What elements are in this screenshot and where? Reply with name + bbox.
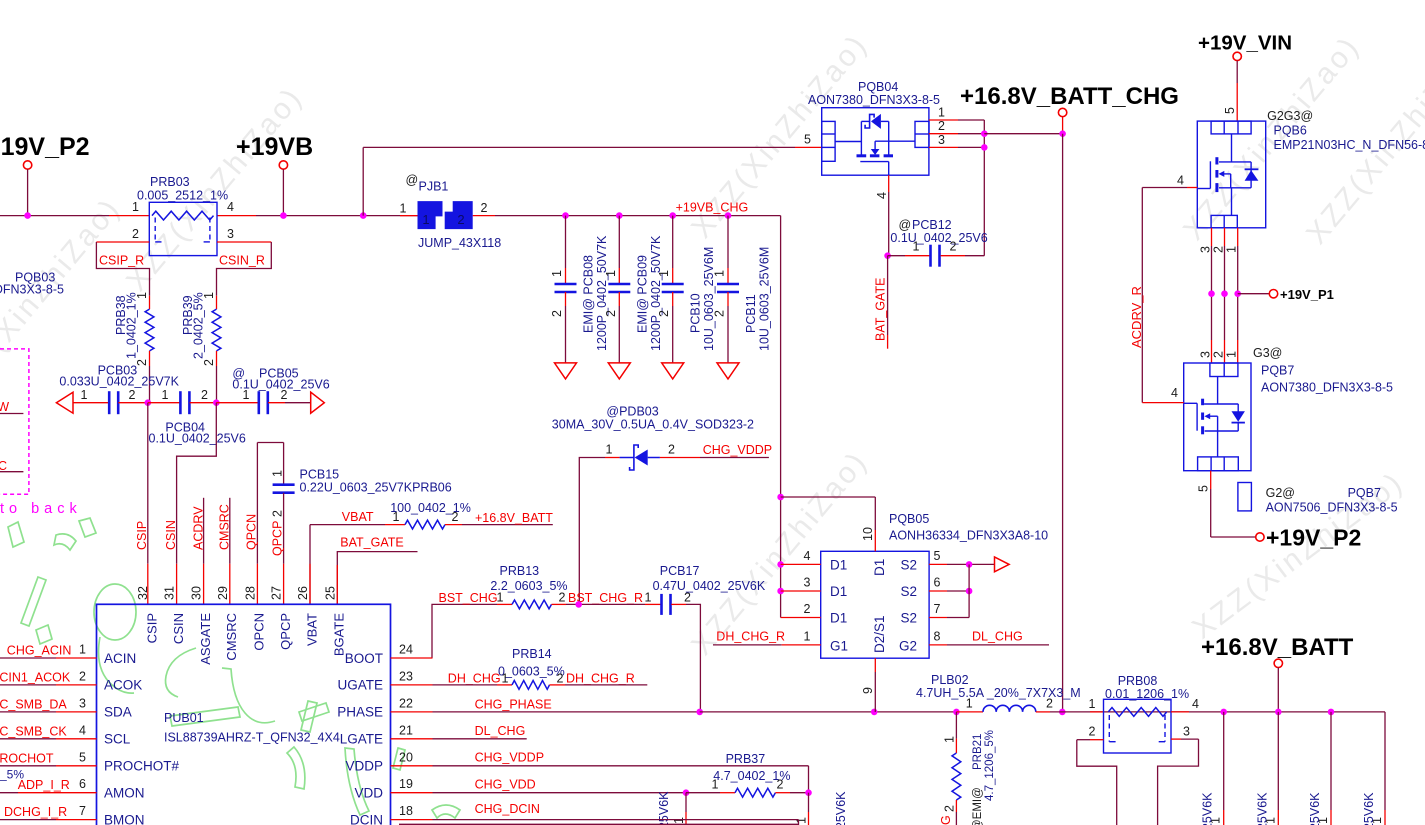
svg-text:G1: G1 <box>830 638 848 653</box>
svg-text:_25V6K: _25V6K <box>1201 792 1215 825</box>
svg-text:100_0402_1%: 100_0402_1% <box>390 501 471 515</box>
node pin 23 UGATE <box>391 684 433 686</box>
svg-text:_25V6K: _25V6K <box>1255 792 1269 825</box>
svg-text:SDA: SDA <box>104 705 132 720</box>
svg-text:8: 8 <box>934 630 941 644</box>
svg-text:2: 2 <box>481 201 488 215</box>
svg-text:SCL: SCL <box>104 732 131 747</box>
node pin 7 BMON <box>0 819 56 821</box>
pin 9 to phase node <box>874 658 876 672</box>
wire main +19VB horizontal <box>0 215 109 217</box>
svg-text:AON7380_DFN3X3-8-5: AON7380_DFN3X3-8-5 <box>0 283 64 297</box>
svg-text:EC_SMB_CK: EC_SMB_CK <box>0 724 67 738</box>
svg-text:CSIN: CSIN <box>164 520 178 550</box>
svg-text:4: 4 <box>1177 174 1184 188</box>
svg-text:7: 7 <box>79 804 86 818</box>
svg-text:7: 7 <box>934 602 941 616</box>
node pin 19 VDD <box>391 792 433 794</box>
svg-text:DL_CHG: DL_CHG <box>475 724 526 738</box>
svg-text:2.2_0603_5%: 2.2_0603_5% <box>490 579 567 593</box>
svg-text:BGATE: BGATE <box>332 613 347 656</box>
svg-text:1: 1 <box>606 443 613 457</box>
svg-text:20: 20 <box>399 750 413 764</box>
svg-text:CMSRC: CMSRC <box>224 613 239 661</box>
svg-text:AON7380_DFN3X3-8-5: AON7380_DFN3X3-8-5 <box>808 93 940 107</box>
svg-text:19: 19 <box>399 777 413 791</box>
svg-text:AONH36334_DFN3X3A8-10: AONH36334_DFN3X3A8-10 <box>889 529 1048 543</box>
svg-text:DH_CHG_R: DH_CHG_R <box>566 672 635 686</box>
svg-text:CHG_VDDP: CHG_VDDP <box>475 751 544 765</box>
svg-text:26: 26 <box>296 586 310 600</box>
svg-text:1: 1 <box>966 697 973 711</box>
svg-text:DH_CHG_R: DH_CHG_R <box>716 630 785 644</box>
bottom decoupling caps stubs <box>1220 709 1227 716</box>
svg-text:VBAT: VBAT <box>342 510 374 524</box>
svg-text:1: 1 <box>938 106 945 120</box>
svg-text:D2/S1: D2/S1 <box>872 615 887 653</box>
svg-text:PCB10: PCB10 <box>689 293 703 333</box>
svg-text:29: 29 <box>216 586 230 600</box>
svg-text:@PDB03: @PDB03 <box>606 405 658 419</box>
svg-text:30: 30 <box>190 586 204 600</box>
svg-text:PCB15: PCB15 <box>300 468 340 482</box>
node pin 3 SDA <box>0 711 56 713</box>
svg-text:G3@: G3@ <box>1253 346 1282 360</box>
svg-text:1: 1 <box>713 270 727 277</box>
svg-text:PUB01: PUB01 <box>164 711 204 725</box>
svg-text:PQB05: PQB05 <box>889 512 929 526</box>
svg-text:CSIP: CSIP <box>144 613 159 643</box>
svg-text:2: 2 <box>271 510 285 517</box>
svg-text:1: 1 <box>942 736 956 743</box>
svg-text:10: 10 <box>861 527 875 541</box>
svg-text:EC_SMB_DA: EC_SMB_DA <box>0 697 67 711</box>
wire CSIP_R <box>96 241 149 243</box>
node pin 24 BOOT <box>391 657 433 659</box>
wire +19VB_CHG bus to D1 pins <box>780 216 782 618</box>
svg-text:CSIP: CSIP <box>135 521 149 550</box>
svg-text:PRB03: PRB03 <box>150 175 190 189</box>
svg-text:2: 2 <box>1089 725 1096 739</box>
svg-text:EMI@ PCB09: EMI@ PCB09 <box>635 255 649 333</box>
svg-text:+19V_P1: +19V_P1 <box>1280 287 1334 302</box>
svg-text:2: 2 <box>129 388 136 402</box>
svg-text:QPCN: QPCN <box>245 514 259 550</box>
svg-text:2: 2 <box>201 388 208 402</box>
svg-text:+16.8V_BATT: +16.8V_BATT <box>1201 634 1354 661</box>
transistor PQB04 pin4 / BAT_GATE <box>888 175 890 192</box>
svg-text:2: 2 <box>938 119 945 133</box>
svg-text:4.7_1206_5%: 4.7_1206_5% <box>984 730 996 801</box>
svg-text:1: 1 <box>1225 246 1239 253</box>
svg-text:_25V6K: _25V6K <box>834 791 848 825</box>
svg-text:1200P_0402_50V7K: 1200P_0402_50V7K <box>649 235 663 351</box>
svg-text:PHASE: PHASE <box>337 705 383 720</box>
svg-text:W: W <box>0 400 9 414</box>
svg-text:5: 5 <box>79 750 86 764</box>
node +19V_P2 terminal <box>23 161 31 169</box>
svg-text:PCB12: PCB12 <box>912 218 952 232</box>
svg-text:3: 3 <box>79 696 86 710</box>
svg-text:6: 6 <box>934 576 941 590</box>
svg-text:EMP21N03HC_N_DFN56-8-5: EMP21N03HC_N_DFN56-8-5 <box>1274 138 1425 152</box>
capacitor PCB10 <box>669 212 676 219</box>
capacitor PCB15 <box>283 443 285 485</box>
svg-text:2: 2 <box>657 310 671 317</box>
transistor PQB7 pin5 / +19V_P2 <box>1210 471 1212 489</box>
svg-text:1: 1 <box>913 240 920 254</box>
svg-text:5: 5 <box>1223 107 1237 114</box>
svg-text:32: 32 <box>136 586 150 600</box>
wire CSIN vertical to pin31 <box>177 403 217 564</box>
svg-text:2: 2 <box>668 443 675 457</box>
svg-text:ADP_I_R: ADP_I_R <box>18 778 70 792</box>
svg-text:CHG_DCIN: CHG_DCIN <box>475 802 540 816</box>
svg-text:@EMI@: @EMI@ <box>972 787 984 825</box>
wire caps below PRB37 <box>685 793 687 812</box>
svg-text:2: 2 <box>950 240 957 254</box>
svg-text:S2: S2 <box>900 584 917 599</box>
svg-text:4: 4 <box>227 200 234 214</box>
svg-text:PROCHOT: PROCHOT <box>0 751 54 765</box>
svg-text:C: C <box>0 459 7 473</box>
svg-text:3: 3 <box>938 133 945 147</box>
svg-text:+19VB_CHG: +19VB_CHG <box>676 201 749 215</box>
wire VBAT to pin26 / resistor PRB06 / +16.8V_BATT stub <box>309 525 311 605</box>
svg-text:CMSRC: CMSRC <box>218 504 232 550</box>
svg-text:QPCP: QPCP <box>271 521 285 556</box>
svg-text:CHG_PHASE: CHG_PHASE <box>475 698 552 712</box>
off-page dashed block (magenta) <box>0 349 29 494</box>
svg-text:CSIN: CSIN <box>171 613 186 644</box>
svg-text:1: 1 <box>712 778 719 792</box>
wire cap row CSIP/CSIN <box>56 392 73 413</box>
svg-text:2: 2 <box>550 310 564 317</box>
svg-text:+19V_P2: +19V_P2 <box>0 133 90 161</box>
svg-text:1: 1 <box>645 591 652 605</box>
svg-text:+16.8V_BATT_CHG: +16.8V_BATT_CHG <box>960 83 1179 110</box>
svg-text:2: 2 <box>1212 351 1226 358</box>
svg-text:4: 4 <box>804 549 811 563</box>
svg-text:30MA_30V_0.5UA_0.4V_SOD323-2: 30MA_30V_0.5UA_0.4V_SOD323-2 <box>552 418 754 432</box>
svg-text:4: 4 <box>875 192 889 199</box>
node pin 1 ACIN <box>0 657 56 659</box>
svg-text:2: 2 <box>777 778 784 792</box>
svg-text:6: 6 <box>79 777 86 791</box>
svg-text:QPCP: QPCP <box>278 613 293 650</box>
svg-text:ACDRV: ACDRV <box>192 506 206 550</box>
node +19VB terminal <box>279 161 287 169</box>
svg-text:3: 3 <box>804 576 811 590</box>
svg-text:31: 31 <box>163 586 177 600</box>
wire QPCN to pin28 and PCB15 <box>257 442 283 444</box>
svg-text:1: 1 <box>1089 697 1096 711</box>
svg-text:18: 18 <box>399 804 413 818</box>
svg-text:0.22U_0603_25V7KPRB06: 0.22U_0603_25V7KPRB06 <box>300 481 452 495</box>
svg-text:1: 1 <box>795 817 809 824</box>
svg-text:1200P_0402_50V7K: 1200P_0402_50V7K <box>595 235 609 351</box>
svg-text:2: 2 <box>202 359 216 366</box>
svg-text:10U_0603_25V6M: 10U_0603_25V6M <box>758 247 772 351</box>
svg-text:4: 4 <box>1171 386 1178 400</box>
svg-text:1: 1 <box>162 388 169 402</box>
resistor PRB39 <box>212 309 221 351</box>
svg-text:PRB13: PRB13 <box>500 564 540 578</box>
svg-text:AON7506_DFN3X3-8-5: AON7506_DFN3X3-8-5 <box>1266 501 1398 515</box>
capacitor PCB11 <box>725 212 732 219</box>
node pin 6 AMON <box>0 792 18 794</box>
svg-text:PQB7: PQB7 <box>1348 486 1381 500</box>
svg-text:DCIN: DCIN <box>350 812 383 825</box>
svg-text:PQB7: PQB7 <box>1261 364 1294 378</box>
svg-text:PROCHOT#: PROCHOT# <box>104 759 180 774</box>
svg-text:+19V_VIN: +19V_VIN <box>1198 32 1292 55</box>
svg-text:PCB11: PCB11 <box>744 294 758 333</box>
svg-text:EMI@ PCB08: EMI@ PCB08 <box>582 255 596 333</box>
svg-text:25: 25 <box>323 586 337 600</box>
svg-text:@: @ <box>406 173 419 187</box>
svg-text:2: 2 <box>79 669 86 683</box>
op-amp U1 : charger IC PUB01 <box>97 604 391 825</box>
transistor PQB7 pin4 <box>1142 402 1183 404</box>
svg-text:+19V_P2: +19V_P2 <box>1266 525 1361 551</box>
wire ACDRV stub to pin30 <box>203 498 205 564</box>
svg-text:JUMP_43X118: JUMP_43X118 <box>418 236 501 250</box>
node pin 18 DCIN <box>391 819 433 821</box>
wire BST_CHG row <box>432 604 497 658</box>
svg-text:22: 22 <box>399 696 413 710</box>
wire pin1-3 bus vertical <box>983 120 985 256</box>
svg-text:1: 1 <box>400 202 407 216</box>
svg-text:BAT_GATE: BAT_GATE <box>340 536 403 550</box>
wire +19VB branch up to PQB04 pin5 <box>360 212 367 219</box>
svg-text:PQB6: PQB6 <box>1274 123 1307 137</box>
svg-text:OPCN: OPCN <box>252 613 267 651</box>
svg-text:3: 3 <box>227 227 234 241</box>
svg-text:9: 9 <box>861 687 875 694</box>
svg-text:+19VB: +19VB <box>236 133 313 161</box>
svg-text:CHG_VDDP: CHG_VDDP <box>703 443 772 457</box>
svg-text:1: 1 <box>804 630 811 644</box>
svg-text:24: 24 <box>399 643 413 657</box>
svg-text:1: 1 <box>550 270 564 277</box>
svg-text:28: 28 <box>243 586 257 600</box>
svg-text:VDD: VDD <box>354 786 383 801</box>
svg-text:5: 5 <box>1197 485 1211 492</box>
svg-text:BST_CHG: BST_CHG <box>439 591 498 605</box>
svg-text:D1: D1 <box>830 610 847 625</box>
wire CSIP vertical to pin32 <box>147 403 149 564</box>
svg-text:3: 3 <box>1199 351 1213 358</box>
svg-text:5: 5 <box>934 549 941 563</box>
node pin 5 PROCHOT# <box>0 765 56 767</box>
svg-text:1: 1 <box>604 270 618 277</box>
svg-text:27: 27 <box>270 586 284 600</box>
svg-text:G: G <box>939 815 953 825</box>
capacitor PCB09 <box>616 212 623 219</box>
svg-text:CSIP_R: CSIP_R <box>99 254 144 268</box>
svg-text:4.7UH_5.5A _20%_7X7X3_M: 4.7UH_5.5A _20%_7X7X3_M <box>916 686 1081 700</box>
svg-text:2: 2 <box>452 510 459 524</box>
svg-text:2: 2 <box>557 672 564 686</box>
svg-text:ISL88739AHRZ-T_QFN32_4X4: ISL88739AHRZ-T_QFN32_4X4 <box>164 731 340 745</box>
svg-text:2: 2 <box>457 212 464 227</box>
svg-text:4: 4 <box>1192 697 1199 711</box>
svg-text:to back: to back <box>0 501 82 517</box>
resistor PRB38 <box>145 309 154 351</box>
svg-text:DH_CHG: DH_CHG <box>448 672 501 686</box>
transistor PQB6 pin4 + wire ACDRV_R <box>1187 187 1197 189</box>
svg-text:PRB14: PRB14 <box>512 647 552 661</box>
wire PQB6 to PQB7 pins 3,2,1 <box>1211 228 1213 246</box>
svg-text:PLB02: PLB02 <box>931 673 969 687</box>
svg-text:1: 1 <box>202 292 216 299</box>
node pin 2 ACOK <box>0 684 56 686</box>
resistor PRB21 vertical <box>955 712 957 739</box>
svg-text:2_0402_5%: 2_0402_5% <box>192 292 206 359</box>
pad G2 PQB7 <box>1238 483 1252 511</box>
svg-text:S2: S2 <box>900 557 917 572</box>
svg-text:ACIN: ACIN <box>104 651 136 666</box>
wire DL_CHG from G2 <box>929 644 947 646</box>
svg-text:CHG_ACIN: CHG_ACIN <box>7 644 72 658</box>
svg-text:5: 5 <box>804 133 811 147</box>
svg-text:1: 1 <box>657 270 671 277</box>
svg-text:PJB1: PJB1 <box>419 180 449 194</box>
svg-text:2: 2 <box>1212 246 1226 253</box>
svg-text:LGATE: LGATE <box>340 732 383 747</box>
node +19V_P1 terminal <box>1238 293 1270 295</box>
wire BAT_GATE stub from pin25 <box>337 552 417 605</box>
svg-text:PRB37: PRB37 <box>726 752 766 766</box>
svg-text:G2: G2 <box>899 638 917 653</box>
svg-text:DL_CHG: DL_CHG <box>972 630 1023 644</box>
svg-text:2: 2 <box>804 602 811 616</box>
svg-text:D1: D1 <box>872 559 887 576</box>
svg-text:+16.8V_BATT: +16.8V_BATT <box>475 511 553 525</box>
svg-text:ASGATE: ASGATE <box>198 613 213 665</box>
green scribble watermark <box>8 522 24 547</box>
svg-text:3: 3 <box>1183 725 1190 739</box>
svg-text:4: 4 <box>79 723 86 737</box>
svg-text:UGATE: UGATE <box>337 678 383 693</box>
svg-text:1: 1 <box>1225 351 1239 358</box>
svg-text:PRB21: PRB21 <box>972 734 984 770</box>
svg-text:2: 2 <box>1046 697 1053 711</box>
svg-text:1: 1 <box>132 200 139 214</box>
node pin 4 SCL <box>0 738 56 740</box>
svg-text:PQB04: PQB04 <box>858 80 898 94</box>
svg-text:VDDP: VDDP <box>345 759 383 774</box>
svg-text:ACOK: ACOK <box>104 678 142 693</box>
svg-text:ACDRV_R: ACDRV_R <box>1129 286 1144 348</box>
svg-text:1: 1 <box>81 388 88 402</box>
node pin 20 VDDP <box>391 765 433 767</box>
svg-text:2: 2 <box>713 310 727 317</box>
svg-text:21: 21 <box>399 723 413 737</box>
svg-text:1: 1 <box>243 388 250 402</box>
svg-text:G2G3@: G2G3@ <box>1267 109 1313 123</box>
svg-text:1: 1 <box>79 643 86 657</box>
svg-text:PCB17: PCB17 <box>660 564 700 578</box>
svg-text:_5%: _5% <box>0 768 24 782</box>
node pin 22 PHASE <box>391 711 433 713</box>
svg-text:0.005_2512_1%: 0.005_2512_1% <box>137 189 228 203</box>
svg-text:3: 3 <box>1199 246 1213 253</box>
svg-text:0.47U_0402_25V6K: 0.47U_0402_25V6K <box>653 579 766 593</box>
svg-text:S2: S2 <box>900 610 917 625</box>
S2 pins 5,6,7 + arrow <box>929 563 947 565</box>
svg-text:DCHG_I_R: DCHG_I_R <box>4 805 67 819</box>
svg-text:D1: D1 <box>830 557 847 572</box>
svg-text:_25V6K: _25V6K <box>1362 792 1376 825</box>
svg-text:BOOT: BOOT <box>345 651 383 666</box>
svg-text:1: 1 <box>393 510 400 524</box>
svg-text:2: 2 <box>604 310 618 317</box>
wire CSIN_R <box>217 241 271 243</box>
svg-text:0.1U_0402_25V6: 0.1U_0402_25V6 <box>890 231 987 245</box>
svg-text:1: 1 <box>502 672 509 686</box>
svg-text:1: 1 <box>271 470 285 477</box>
svg-text:BMON: BMON <box>104 812 145 825</box>
svg-text:AON7380_DFN3X3-8-5: AON7380_DFN3X3-8-5 <box>1261 381 1393 395</box>
wire CMSRC stub to pin29 <box>229 498 231 564</box>
svg-text:1: 1 <box>672 817 686 824</box>
svg-text:0.1U_0402_25V6: 0.1U_0402_25V6 <box>149 432 246 446</box>
svg-text:VBAT: VBAT <box>304 613 319 646</box>
svg-text:G2@: G2@ <box>1266 486 1295 500</box>
svg-text:2: 2 <box>281 388 288 402</box>
svg-text:CSIN_R: CSIN_R <box>219 254 265 268</box>
svg-text:_25V6K: _25V6K <box>1308 792 1322 825</box>
svg-text:D1: D1 <box>830 584 847 599</box>
svg-text:10U_0603_25V6M: 10U_0603_25V6M <box>702 247 716 351</box>
node pin 21 LGATE <box>391 738 433 740</box>
svg-text:PRB08: PRB08 <box>1118 674 1158 688</box>
capacitor PCB08 <box>562 212 569 219</box>
svg-text:2: 2 <box>132 227 139 241</box>
svg-text:2: 2 <box>942 805 956 812</box>
svg-text:BAT_GATE: BAT_GATE <box>874 278 888 341</box>
svg-text:1_0402_1%: 1_0402_1% <box>125 292 139 359</box>
svg-text:2: 2 <box>684 591 691 605</box>
svg-text:@: @ <box>899 218 912 232</box>
svg-text:1: 1 <box>422 212 429 227</box>
svg-text:0.033U_0402_25V7K: 0.033U_0402_25V7K <box>59 375 179 389</box>
svg-text:23: 23 <box>399 669 413 683</box>
svg-text:1: 1 <box>135 292 149 299</box>
svg-text:ACIN1_ACOK: ACIN1_ACOK <box>0 670 71 684</box>
svg-text:AMON: AMON <box>104 786 145 801</box>
svg-text:CHG_VDD: CHG_VDD <box>475 778 536 792</box>
svg-text:2: 2 <box>559 591 566 605</box>
